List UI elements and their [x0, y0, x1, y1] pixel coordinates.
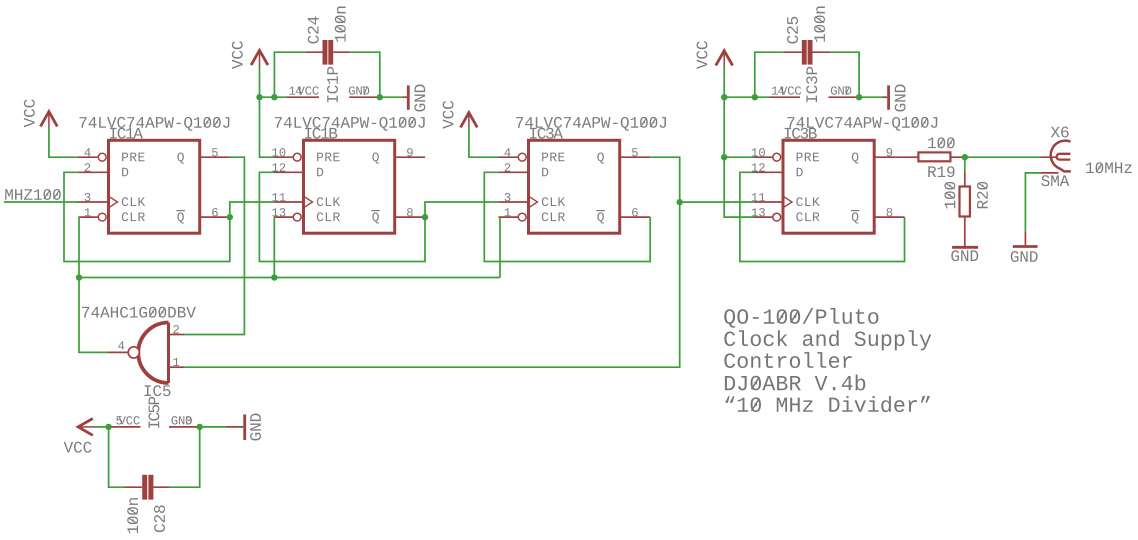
pin 11 CLK IC3B	[752, 193, 783, 202]
title text: DJ0ABR V.4b	[725, 375, 865, 391]
pin 10 PRE IC1B	[272, 148, 301, 161]
wire IC3A feedback D-Qbar	[484, 172, 650, 261]
capacitor C24	[305, 40, 350, 65]
pin 12 D IC1B	[272, 163, 303, 172]
wire node down to R20	[964, 157, 966, 186]
wire C28 left leg	[109, 427, 125, 487]
pin 1 CLR IC3A	[498, 208, 526, 221]
resistor R19	[918, 152, 950, 161]
wire rail to IC1B CLR	[273, 217, 275, 277]
wire VCC rail to pin 14 (IC1P)	[260, 96, 288, 98]
pin 14 VCC IC3P	[770, 86, 802, 97]
wire VCC to rail (IC5P)	[95, 426, 112, 428]
pin 2 D IC1A	[79, 163, 109, 172]
ground symbol (IC5P)	[227, 414, 261, 441]
pin 9 Q IC1B	[395, 148, 425, 157]
junction R19/R20/X6 node	[962, 154, 968, 160]
pin 1 CLR IC1A	[79, 208, 107, 221]
wire VCC arrow stem to rail (C24)	[259, 66, 261, 97]
wire pin3 to GND symbol (IC5P)	[200, 426, 227, 428]
capacitor C28	[124, 475, 169, 500]
power VCC symbol (C24 rail)	[232, 41, 268, 69]
junction IC1B Qbar node	[422, 214, 428, 220]
power VCC symbol (IC3A PRE)	[443, 101, 478, 129]
wire C28 right leg	[169, 427, 199, 487]
flip-flop IC3B (74LVC74APW-Q100J)	[783, 140, 874, 233]
junction C24 right leg	[377, 94, 383, 100]
pin 6 Q-bar IC3A	[620, 208, 651, 217]
pin 2 input IC5	[170, 325, 185, 334]
pin 2 D IC3A	[498, 163, 528, 172]
label IC3P	[806, 67, 817, 102]
label IC1P	[327, 67, 338, 102]
pin 14 VCC IC1P	[287, 86, 319, 97]
junction C25 left leg	[752, 94, 758, 100]
wire IC1A feedback D-Qbar	[64, 172, 230, 261]
junction VCC rail/arrow (C25)	[721, 94, 727, 100]
wire rail to IC1A CLR	[78, 217, 80, 277]
junction IC3B PRE node	[721, 154, 727, 160]
pin 9 Q IC3B	[874, 148, 904, 157]
wire X6 shield to ground	[1025, 173, 1040, 245]
pin 3 CLK IC3A	[498, 193, 528, 202]
pin 5 Q IC3A	[620, 148, 651, 157]
label IC5	[144, 385, 170, 396]
pin 8 Q-bar IC1B	[395, 208, 425, 217]
wire rail to IC3A CLR	[499, 217, 501, 277]
flip-flop IC1A (74LVC74APW-Q100J)	[109, 140, 200, 233]
power VCC symbol (C25 rail)	[697, 41, 733, 69]
title text: “10 MHz Divider”	[725, 396, 930, 412]
pin 7 GND IC3P	[829, 86, 860, 97]
net label 10MHz	[1086, 162, 1132, 173]
label IC1A part name	[79, 117, 229, 131]
title text: Clock and Supply	[724, 330, 931, 350]
label IC3A	[530, 128, 563, 139]
wire VCC rail down to IC3B pins 10/13	[724, 97, 754, 217]
pin 3 GND IC5P	[169, 416, 200, 427]
wire VCC to IC1A pin4	[49, 128, 79, 157]
label IC1A	[110, 128, 143, 139]
flip-flop IC3A (74LVC74APW-Q100J)	[529, 140, 620, 233]
pin 6 Q-bar IC1A	[200, 208, 230, 217]
wire VCC rail down to IC1B pin10	[260, 97, 274, 157]
label 100n (C24 value)	[335, 7, 346, 42]
NAND gate IC5 (74AHC1G00DBV)	[128, 323, 168, 384]
label IC5 part name	[82, 307, 196, 318]
ground symbol (R20)	[951, 247, 978, 261]
pin 2 shield X6	[1040, 172, 1058, 174]
pin 12 D IC3B	[752, 163, 783, 172]
pin 10 PRE IC3B	[752, 148, 781, 161]
pin 7 GND IC1P	[349, 86, 380, 97]
wire MHZ100 to IC1A CLK	[4, 201, 79, 203]
label X6	[1051, 127, 1069, 138]
power VCC symbol (IC5P)	[64, 419, 95, 453]
wire C24 left leg	[274, 52, 305, 97]
wire VCC to IC3A pin4	[469, 128, 499, 157]
label C25	[787, 17, 798, 44]
pin 5 Q IC1A	[200, 148, 230, 157]
pin 13 CLR IC3B	[752, 208, 781, 221]
title text: Controller	[724, 352, 851, 368]
label IC1B part name	[275, 117, 425, 131]
label IC3A part name	[516, 117, 666, 131]
wire VCC arrow stem to rail (C25)	[723, 66, 725, 97]
label IC3B part name	[787, 117, 937, 131]
power VCC symbol (IC1A PRE)	[24, 99, 57, 128]
wire IC5 output to CLR rail	[79, 278, 107, 353]
wire C25 left leg	[755, 52, 784, 97]
junction IC5P VCC	[105, 424, 111, 430]
pin 4 PRE IC1A	[79, 148, 107, 161]
junction IC5P GND	[197, 424, 203, 430]
ground symbol (C24)	[402, 85, 425, 112]
wire IC3B feedback D-Qbar	[740, 172, 905, 261]
junction CLR rail / IC1B	[271, 274, 277, 280]
label C24	[308, 17, 319, 44]
wire CLR rail	[79, 277, 500, 279]
label IC3B	[785, 128, 817, 139]
pin 1 input IC5	[170, 358, 185, 367]
wire IC3A Q to node	[650, 157, 680, 202]
junction VCC rail/arrow (C24)	[256, 94, 262, 100]
junction IC1A Qbar node	[227, 214, 233, 220]
wire pin7 to GND symbol (C25)	[859, 96, 882, 98]
label R19	[928, 166, 954, 177]
net label MHZ100	[5, 189, 61, 200]
ground symbol (C25)	[883, 85, 906, 112]
pin 8 Q-bar IC3B	[874, 208, 904, 217]
wire IC1A Qbar to IC1B CLK	[230, 202, 274, 217]
flip-flop IC1B (74LVC74APW-Q100J)	[304, 140, 395, 233]
ground symbol (X6)	[1011, 247, 1038, 262]
pin 4 PRE IC3A	[498, 148, 526, 161]
wire IC3B Q to R19	[904, 156, 919, 158]
wire node to IC3B CLK	[680, 201, 754, 203]
pin 4 output IC5	[107, 341, 127, 352]
wire C24 right leg	[350, 52, 380, 97]
junction CLR rail / IC1A	[76, 274, 82, 280]
label 100n (C25 value)	[814, 7, 825, 42]
label C28	[154, 505, 165, 532]
wire C25 right leg	[831, 52, 860, 97]
wire R19 to node	[950, 156, 964, 158]
pin 5 VCC IC5P	[112, 416, 141, 427]
title text: QO-100/Pluto	[724, 308, 878, 328]
label 100 (R19 value)	[928, 137, 955, 148]
wire IC1B feedback D-Qbar	[259, 172, 425, 261]
label 100 (R20 value)	[944, 182, 955, 209]
junction C24 left leg	[271, 94, 277, 100]
label SMA	[1041, 175, 1069, 186]
wire node to IC5 input1	[185, 202, 680, 367]
wire node to X6	[965, 156, 1041, 158]
label IC1B	[305, 128, 337, 139]
resistor R20	[960, 187, 970, 217]
label IC5P	[148, 397, 159, 428]
capacitor C25	[784, 40, 831, 65]
wire IC1A Q to IC5 input2	[185, 157, 245, 334]
pin 3 CLK IC1A	[79, 193, 109, 202]
pin 13 CLR IC1B	[272, 208, 301, 221]
junction IC3B CLK node	[677, 199, 683, 205]
wire VCC rail to pin 14 (IC3P)	[724, 96, 769, 98]
pin 1 signal X6	[1040, 156, 1057, 158]
junction C25 right leg	[856, 94, 862, 100]
connector X6 SMA	[1051, 141, 1071, 172]
wire pin7 to GND symbol (C24)	[380, 96, 402, 98]
label 100n (C28 value)	[127, 498, 138, 533]
label R20	[977, 182, 988, 208]
pin 11 CLK IC1B	[272, 193, 303, 202]
wire R20 to ground	[964, 217, 966, 247]
wire IC1B Qbar to IC3A CLK	[425, 202, 498, 217]
